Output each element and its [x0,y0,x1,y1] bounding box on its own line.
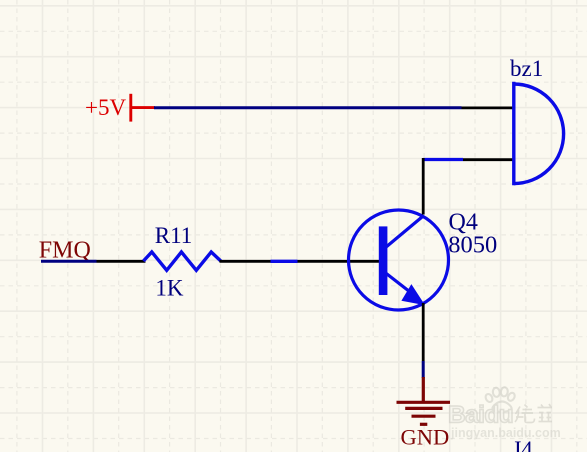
watermark [448,387,561,440]
svg-text:J4: J4 [512,437,533,452]
buzzer bz1 pin 1 [462,107,513,110]
buzzer bz1 [514,82,564,185]
resistor R11 [143,252,220,270]
svg-text:bz1: bz1 [510,56,543,81]
wire emitter to ground [422,361,425,378]
transistor Q4 emitter pin [422,303,425,361]
transistor Q4 collector pin [422,158,425,215]
resistor R11 pin 1 [97,260,146,263]
resistor R11 pin 2 [220,260,271,263]
power port +5V [131,94,155,122]
ground GND [397,377,451,424]
svg-text:FMQ: FMQ [39,238,91,264]
wire base [271,260,298,263]
buzzer bz1 pin 2 [463,158,513,161]
wire FMQ stub [41,260,97,263]
transistor Q4 [349,210,449,310]
svg-text:1K: 1K [155,276,184,301]
svg-text:8050: 8050 [448,232,497,259]
svg-text:jingyan.baidu.com: jingyan.baidu.com [450,426,561,440]
wire +5V rail [154,106,462,109]
wire collector corner to buzzer [423,158,463,161]
transistor Q4 base pin [298,260,383,263]
svg-text:Baidu: Baidu [448,402,513,429]
svg-text:+5V: +5V [85,95,126,120]
svg-text:R11: R11 [155,223,193,248]
svg-text:GND: GND [401,425,450,450]
